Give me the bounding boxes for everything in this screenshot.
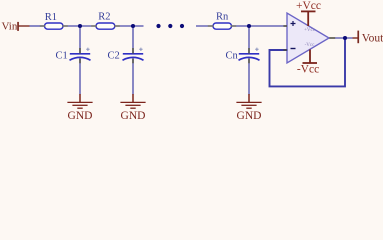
op-amp plus input symbol (291, 21, 296, 26)
port Vout bar (357, 31, 359, 44)
svg-text:R2: R2 (98, 12, 110, 23)
ground GND1 (67, 94, 92, 108)
wire to Rn (196, 25, 214, 27)
power +Vcc stem (307, 11, 309, 26)
capacitor Cn pins (248, 48, 250, 63)
op-amp U1 (287, 13, 329, 63)
svg-text:C2: C2 (108, 50, 120, 61)
capacitor Cn (239, 26, 260, 95)
wire op-amp output (329, 37, 353, 39)
node D junction (output) (343, 36, 347, 40)
port Vin stub wire (18, 25, 30, 27)
wire R1 to node A (63, 25, 96, 27)
svg-text:R1: R1 (45, 12, 57, 23)
wire feedback loop (270, 38, 346, 86)
node A junction (78, 24, 82, 28)
wire Vin to R1 (30, 25, 46, 27)
wire Rn to node C (232, 25, 288, 27)
node C junction (247, 24, 251, 28)
ellipsis dot 2 (168, 24, 172, 28)
svg-text:-Vcc: -Vcc (305, 43, 315, 48)
resistor Rn pins (208, 25, 236, 27)
resistor Rn (213, 23, 232, 29)
svg-text:+Vcc: +Vcc (304, 28, 316, 33)
ground GND2 (120, 94, 145, 108)
capacitor C1 (70, 26, 91, 95)
power -Vcc stem (309, 50, 311, 64)
svg-text:Vout: Vout (362, 32, 383, 44)
power -Vcc bar (303, 62, 318, 64)
resistor R1 (45, 23, 64, 29)
op-amp minus input symbol (291, 48, 296, 50)
capacitor C2 pins (132, 48, 134, 63)
node B junction (131, 24, 135, 28)
svg-text:Vin: Vin (2, 20, 18, 32)
port Vout stub wire (353, 37, 359, 39)
svg-text:Cn: Cn (226, 50, 239, 61)
op-amp U1 input pins (283, 26, 287, 50)
resistor R2 pins (91, 25, 120, 27)
svg-text:GND: GND (121, 110, 146, 122)
ground GND3 (236, 94, 261, 108)
capacitor C2 (123, 26, 144, 95)
capacitor C1 pins (79, 48, 81, 63)
ellipsis dot 1 (156, 24, 160, 28)
svg-text:GND: GND (68, 110, 93, 122)
svg-text:+Vcc: +Vcc (296, 0, 321, 12)
svg-text:Rn: Rn (216, 12, 229, 23)
ellipsis dot 3 (180, 24, 184, 28)
op-amp U1 output pin (329, 37, 335, 39)
svg-text:-Vcc: -Vcc (297, 63, 319, 75)
power +Vcc bar (301, 10, 316, 12)
svg-text:GND: GND (237, 110, 262, 122)
port Vin bar (17, 22, 19, 31)
resistor R1 pins (40, 25, 68, 27)
svg-text:C1: C1 (56, 50, 68, 61)
wire R2 to node B (115, 25, 144, 27)
resistor R2 (96, 23, 115, 29)
